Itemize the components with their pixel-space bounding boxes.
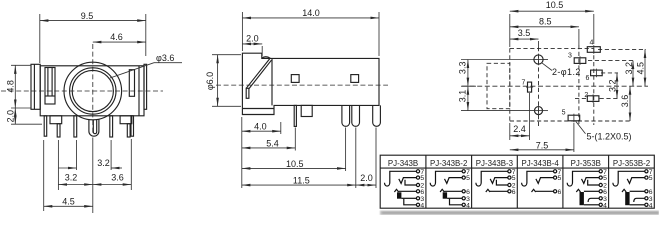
column line 1: [425, 155, 427, 208]
column line 4: [562, 155, 564, 208]
svg-text:3.2: 3.2: [624, 62, 634, 75]
svg-text:4: 4: [590, 39, 594, 46]
outline left edge: [509, 48, 511, 121]
svg-text:7.5: 7.5: [536, 140, 549, 150]
barrel dashed rect: [487, 63, 510, 108]
svg-text:5: 5: [466, 175, 470, 182]
svg-text:PJ-353B-2: PJ-353B-2: [613, 159, 650, 168]
svg-text:5: 5: [558, 175, 562, 182]
svg-text:3.6: 3.6: [620, 95, 630, 108]
pin E step: [120, 116, 132, 124]
left slot inner walls: [47, 68, 49, 97]
svg-text:2.0: 2.0: [246, 34, 259, 44]
dim 2.4: [510, 93, 530, 140]
leader 5-(1.2X0.5): [576, 121, 632, 141]
outline top edge: [510, 47, 594, 49]
svg-text:6: 6: [420, 189, 424, 196]
svg-text:14.0: 14.0: [302, 8, 320, 18]
svg-text:2-φ1.2: 2-φ1.2: [552, 67, 581, 77]
sleeve pin inner U: [93, 120, 96, 134]
right inner wall: [138, 66, 140, 116]
dim 3.5: [510, 28, 539, 39]
schematic cell PJ-343B-2: [430, 169, 470, 210]
pad 3: [574, 58, 586, 64]
nose shelf line: [242, 108, 274, 110]
spring foot: [246, 88, 249, 98]
side hole square 2: [351, 75, 359, 83]
dim 3.2 inner: [608, 73, 618, 99]
round pin 2: [352, 105, 360, 126]
pin F: [131, 116, 134, 136]
dim 10.5: [242, 159, 346, 169]
dim 4.5 right: [636, 49, 646, 86]
svg-text:5: 5: [512, 175, 516, 182]
svg-text:6: 6: [586, 75, 590, 82]
hole2 row line: [461, 110, 534, 112]
pin B lead: [57, 124, 60, 137]
svg-text:6: 6: [558, 189, 562, 196]
hole cross ticks: [533, 59, 544, 61]
left slot step line: [45, 95, 55, 97]
schematic cell PJ-343B-3: [476, 169, 516, 196]
svg-text:7: 7: [522, 80, 526, 87]
pin D: [110, 116, 113, 137]
pad row dashes: [588, 60, 634, 62]
dim 3.2 upper: [59, 158, 123, 168]
svg-text:5: 5: [649, 175, 653, 182]
boss: [301, 105, 312, 116]
label dia 3.6: [110, 53, 182, 78]
svg-text:3.2: 3.2: [97, 158, 110, 168]
svg-text:4.8: 4.8: [5, 80, 15, 93]
side hole square 1: [291, 75, 299, 83]
sleeve pin outer U: [89, 119, 99, 136]
svg-text:2: 2: [584, 92, 588, 99]
schematic cell PJ-343B-4: [522, 169, 562, 196]
pin B step: [50, 116, 62, 124]
round pin 3: [373, 105, 381, 126]
extension lines bottom: [43, 140, 45, 211]
dim 3.3: [458, 60, 477, 87]
svg-text:5.4: 5.4: [266, 138, 279, 148]
thin pin side: [294, 105, 296, 126]
dim 4.5: [44, 196, 93, 206]
svg-text:5: 5: [603, 175, 607, 182]
svg-text:PJ-343B-2: PJ-343B-2: [430, 159, 467, 168]
round pin 1: [342, 105, 350, 126]
dim 3.6: [93, 173, 132, 185]
header separator: [380, 167, 654, 169]
leader 2-dia1.2: [542, 63, 581, 77]
pad 5: [568, 115, 580, 121]
dim 3.2 lower: [58, 173, 92, 185]
dim 11.5: [242, 176, 356, 186]
pad 2: [587, 96, 599, 102]
svg-text:PJ-343B-4: PJ-343B-4: [521, 159, 559, 168]
spring crest: [262, 57, 271, 59]
dim 5.4: [242, 138, 295, 148]
pad 4: [587, 47, 600, 53]
svg-text:10.5: 10.5: [546, 0, 564, 10]
svg-text:8.5: 8.5: [539, 16, 552, 26]
right slot: [129, 70, 134, 97]
dim 8.5: [510, 16, 579, 45]
pin C: [74, 116, 77, 137]
barrel hole circle: [72, 70, 113, 111]
centerline: [462, 85, 648, 87]
hole 2: [535, 107, 543, 115]
left mounting tab: [31, 64, 40, 109]
svg-text:6: 6: [512, 189, 516, 196]
extension lines below: [241, 117, 243, 188]
svg-text:4: 4: [466, 202, 470, 209]
svg-text:6: 6: [603, 189, 607, 196]
outline right edge: [593, 48, 595, 125]
dim 9.5: [40, 11, 146, 63]
jack body front outline: [40, 66, 144, 116]
centerline horizontal: [1, 90, 163, 92]
svg-text:5: 5: [420, 175, 424, 182]
svg-text:4.5: 4.5: [636, 62, 646, 75]
column line 2: [471, 155, 473, 208]
svg-text:3: 3: [568, 52, 572, 59]
dim dia 6.0: [205, 55, 241, 107]
gray scan band below table: [380, 211, 659, 215]
side centerline: [216, 84, 388, 86]
svg-text:4: 4: [649, 202, 653, 209]
svg-text:4.0: 4.0: [254, 122, 267, 132]
svg-text:4: 4: [603, 202, 607, 209]
hole 1: [534, 55, 543, 64]
svg-text:2.0: 2.0: [5, 110, 15, 123]
svg-text:6: 6: [649, 189, 653, 196]
column line 5: [608, 155, 610, 208]
dim 14.0: [242, 8, 379, 56]
svg-text:PJ-353B: PJ-353B: [571, 159, 601, 168]
svg-text:φ3.6: φ3.6: [156, 53, 174, 63]
svg-text:3.2: 3.2: [608, 79, 618, 92]
spring strip: [246, 59, 271, 89]
pin A: [44, 116, 47, 136]
svg-text:2.0: 2.0: [360, 173, 373, 183]
pin E lead: [127, 124, 130, 137]
svg-text:4.5: 4.5: [62, 196, 75, 206]
dim 3.2 outer: [624, 61, 634, 87]
table frame: [380, 155, 654, 208]
svg-text:3.5: 3.5: [518, 28, 531, 38]
pad 7: [528, 82, 532, 92]
left tab inner edge: [33, 64, 35, 109]
barrel outer circle: [64, 62, 122, 120]
svg-text:3.1: 3.1: [458, 90, 468, 103]
outline bottom edge: [510, 120, 632, 122]
dim 2.0 bottom: [356, 173, 376, 185]
hole1 row line: [461, 59, 534, 61]
svg-text:2.4: 2.4: [513, 124, 526, 134]
dim 7.5: [510, 123, 574, 152]
svg-text:5: 5: [562, 110, 566, 117]
pad35 col line: [578, 45, 580, 125]
svg-text:PJ-343B-3: PJ-343B-3: [476, 159, 514, 168]
side body outline: [242, 53, 379, 114]
schematic cell PJ-353B-2: [613, 169, 653, 210]
schematic cell PJ-353B: [567, 169, 607, 210]
dim 10.5 top: [510, 0, 594, 47]
svg-text:6: 6: [466, 189, 470, 196]
svg-text:3.6: 3.6: [111, 173, 124, 183]
dim 2.0 top: [242, 34, 262, 57]
outline right ref edge: [598, 48, 646, 50]
schematic cell PJ-343B: [385, 169, 425, 210]
nose/body interface: [271, 58, 273, 105]
right mounting tab: [144, 64, 147, 109]
svg-text:3.3: 3.3: [458, 62, 468, 75]
centerline vertical: [92, 44, 94, 135]
svg-text:3.2: 3.2: [65, 173, 78, 183]
dim 3.1: [458, 86, 468, 110]
svg-text:φ6.0: φ6.0: [205, 72, 215, 90]
hole col line: [538, 41, 540, 47]
svg-text:4: 4: [420, 202, 424, 209]
svg-text:4.6: 4.6: [110, 32, 123, 42]
dim 3.6 right: [620, 86, 630, 121]
dim 4.6: [93, 32, 146, 42]
dim 4.0: [242, 122, 281, 132]
svg-text:11.5: 11.5: [293, 176, 310, 186]
column line 3: [516, 155, 518, 208]
svg-text:9.5: 9.5: [81, 11, 94, 21]
left slot: [45, 68, 55, 105]
svg-text:PJ-343B: PJ-343B: [388, 159, 418, 168]
pad 6: [591, 70, 603, 76]
barrel ring circle: [70, 68, 116, 114]
dim 2.0 left: [5, 108, 42, 124]
svg-text:10.5: 10.5: [286, 159, 304, 169]
dim 4.8: [5, 65, 31, 108]
svg-text:5-(1.2X0.5): 5-(1.2X0.5): [587, 131, 632, 141]
